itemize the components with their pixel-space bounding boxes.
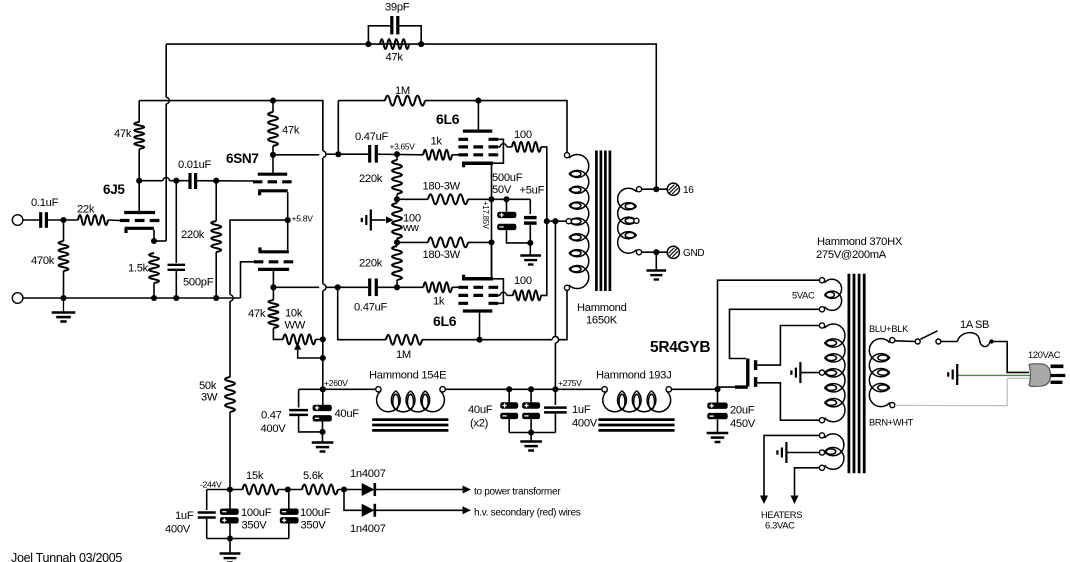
svg-text:16: 16	[683, 185, 694, 196]
svg-text:1M: 1M	[395, 85, 410, 97]
resistor 47k (6SN7 upper plate)	[272, 101, 274, 112]
node 1.5k-gnd	[151, 295, 157, 301]
wire cathode tail	[230, 220, 288, 295]
potentiometer 10k WW	[283, 334, 316, 344]
node cap bottoms	[527, 240, 533, 246]
svg-text:50k: 50k	[199, 380, 217, 392]
fuse 1A SB	[958, 333, 991, 347]
svg-text:120VAC: 120VAC	[1028, 350, 1061, 360]
node 500pF-gnd	[173, 295, 179, 301]
node filter gnd	[528, 429, 534, 435]
wire 6L6 upper cathode lead	[491, 165, 493, 200]
svg-text:220k: 220k	[181, 229, 205, 241]
transformer T2 primary center tap	[566, 219, 571, 224]
ground (cathode caps)	[529, 243, 531, 255]
svg-text:470k: 470k	[31, 255, 55, 267]
node 6J5 cathode	[151, 238, 157, 244]
resistor 1M (lower)	[338, 287, 386, 339]
svg-text:WW: WW	[285, 320, 306, 332]
svg-text:180-3W: 180-3W	[423, 249, 461, 261]
wire diode2 to arrow	[376, 509, 463, 511]
tube 6L6 upper cathode	[462, 161, 493, 165]
node 15k/5.6k	[285, 486, 291, 492]
wire 6SN7 lower grid to gnd bus	[241, 262, 254, 298]
svg-text:1.5k: 1.5k	[128, 263, 149, 275]
wire heater top lead	[764, 435, 819, 496]
node +260V	[320, 386, 326, 392]
node cathode/180 upper	[488, 196, 494, 202]
wire +260V node area	[299, 388, 376, 390]
svg-text:6.3VAC: 6.3VAC	[765, 521, 795, 531]
wire 16 ohm tap	[642, 188, 667, 190]
svg-text:to power transformer: to power transformer	[474, 487, 561, 498]
wire g3-cathode tie lower	[493, 279, 503, 304]
node B+ / 47k top	[270, 98, 276, 104]
node GND tap	[653, 249, 659, 255]
arrow to power transformer	[463, 486, 472, 494]
tube 6SN7 lower grid	[254, 260, 293, 263]
resistor 22k	[78, 215, 108, 225]
wire 193J to rectifier	[672, 388, 718, 390]
choke L2 Hammond 193J	[602, 387, 607, 392]
capacitor 39pF	[368, 26, 391, 44]
wire GND tap	[642, 251, 667, 253]
plug prongs	[1051, 364, 1064, 368]
tube 6L6 lower g2	[458, 294, 498, 297]
capacitor 100uF 350V (b)	[288, 524, 290, 539]
svg-text:100: 100	[514, 275, 532, 287]
node 1M tap upper	[335, 151, 341, 157]
wire 154E to +275V	[445, 388, 601, 390]
wire HV center tap	[801, 372, 819, 374]
node 500uF top	[503, 196, 509, 202]
resistor 50k 3W (tail)	[225, 377, 235, 412]
node -244V	[227, 486, 233, 492]
wire bias rail	[207, 489, 243, 491]
resistor 1k (upper 6L6 grid stopper)	[423, 150, 452, 160]
capacitor 500pF	[175, 181, 177, 263]
svg-text:10k: 10k	[285, 308, 303, 320]
wire 6SN7 lower plate to 0.47uF	[273, 286, 319, 288]
svg-text:47k: 47k	[114, 128, 132, 140]
svg-text:350V: 350V	[301, 520, 327, 532]
svg-text:6SN7: 6SN7	[226, 151, 259, 166]
svg-text:400V: 400V	[165, 524, 191, 536]
wire diode branch	[344, 490, 362, 511]
transformer T1 heater winding	[825, 434, 844, 456]
wire 6L6 lower cathode lead	[491, 242, 493, 277]
svg-text:5.6k: 5.6k	[303, 470, 324, 482]
svg-text:+260V: +260V	[324, 378, 348, 388]
wire switch to fuse	[941, 341, 958, 343]
svg-text:1k: 1k	[433, 296, 445, 308]
svg-text:220k: 220k	[359, 173, 383, 185]
node 16 tap	[653, 186, 659, 192]
svg-text:0.47: 0.47	[261, 410, 282, 422]
wire 100 to screen rail lower	[541, 221, 547, 295]
node 40uF x2 b	[528, 386, 534, 392]
svg-text:100uF: 100uF	[241, 507, 272, 519]
node 6SN7 lower plate	[270, 284, 276, 290]
wire g3-cathode tie upper	[493, 139, 503, 163]
svg-text:350V: 350V	[242, 520, 268, 532]
transformer T1 core	[848, 274, 851, 474]
capacitor 40uF x2 (a)	[508, 389, 510, 402]
wire 1k to g1	[452, 154, 458, 156]
node 6L6 lower plate junction	[476, 337, 482, 343]
transformer T1 HV winding	[825, 324, 845, 347]
svg-text:6L6: 6L6	[433, 313, 457, 329]
svg-text:450V: 450V	[730, 418, 756, 430]
node diode junction	[341, 486, 347, 492]
svg-text:39pF: 39pF	[385, 2, 410, 14]
wire plug ground (green)	[958, 374, 1031, 376]
wire 1M upper vertical	[337, 101, 339, 155]
wire 0.01uF to 6SN7 grid	[196, 180, 254, 182]
wire plug neutral (gray)	[895, 378, 1031, 405]
svg-text:220k: 220k	[359, 258, 383, 270]
svg-text:(x2): (x2)	[470, 418, 489, 430]
node pot wiper	[320, 355, 326, 361]
ground (input)	[63, 298, 65, 313]
wire bias to 1uF	[206, 490, 208, 511]
svg-text:+5.8V: +5.8V	[292, 214, 314, 224]
node 6SN7 upper plate	[270, 152, 276, 158]
svg-text:100: 100	[514, 129, 532, 141]
svg-text:20uF: 20uF	[730, 405, 755, 417]
input jack J1 (hot)	[12, 215, 23, 226]
tube 6L6 upper g2	[458, 145, 498, 148]
wire screen rail to CT	[547, 220, 566, 222]
node bias gnd	[227, 535, 233, 541]
resistor 100 (lower screen)	[513, 290, 541, 300]
svg-text:400V: 400V	[261, 423, 287, 435]
wire cathode bus vertical	[491, 199, 493, 276]
svg-text:1k: 1k	[431, 136, 443, 148]
wire B+ rail top	[139, 101, 323, 151]
capacitor 0.01uF	[188, 173, 191, 189]
node 220k top	[394, 151, 400, 157]
resistor 47k (feedback)	[380, 39, 409, 49]
svg-text:40uF: 40uF	[335, 408, 360, 420]
transformer T1 5VAC winding	[825, 279, 842, 298]
ground (speaker)	[655, 252, 657, 269]
wire cathode node to caps	[492, 198, 531, 200]
choke L2 core	[598, 418, 674, 421]
svg-text:0.01uF: 0.01uF	[178, 159, 211, 171]
svg-text:Joel Tunnah 03/2005: Joel Tunnah 03/2005	[11, 551, 122, 562]
svg-text:15k: 15k	[246, 470, 264, 482]
wire fuse to plug hot	[990, 342, 1029, 373]
tube 6L6 lower plate	[463, 309, 492, 312]
tube 6SN7 upper cathode	[258, 189, 287, 192]
tube 6SN7 lower cathode	[259, 250, 289, 253]
resistor 1k (lower 6L6 grid stopper)	[423, 282, 452, 292]
svg-text:1650K: 1650K	[586, 315, 618, 327]
node 220k/180 junction upper	[394, 196, 400, 202]
node +275V	[552, 386, 558, 392]
svg-text:0.47uF: 0.47uF	[355, 131, 388, 143]
transformer T2 core	[595, 151, 598, 292]
svg-text:275V@200mA: 275V@200mA	[816, 249, 887, 261]
svg-text:400V: 400V	[572, 418, 598, 430]
node pot right	[320, 336, 326, 342]
svg-text:3W: 3W	[201, 392, 218, 404]
ground (first filter)	[322, 432, 324, 442]
wire plate to coupling cap	[139, 180, 163, 182]
wire 0.1uF to node A	[46, 219, 78, 221]
choke L1 Hammond 154E	[376, 387, 381, 392]
tube 6L6 lower g3	[458, 302, 498, 305]
svg-text:+17.85V: +17.85V	[481, 201, 490, 230]
wire feedback top run	[166, 44, 656, 189]
capacitor 20uF 450V	[717, 389, 719, 402]
wire diode1 to arrow	[376, 489, 463, 491]
transformer T2 secondary winding	[618, 188, 637, 210]
svg-text:22k: 22k	[77, 204, 95, 216]
diode 1n4007 (top)	[362, 483, 375, 496]
svg-text:47k: 47k	[282, 125, 300, 137]
capacitor 1uF 400V (B+)	[554, 389, 556, 405]
capacitor 0.47uF (lower)	[368, 279, 371, 297]
svg-text:6J5: 6J5	[103, 182, 125, 197]
ground (bias)	[229, 539, 231, 553]
wire grid line lower	[376, 286, 423, 288]
wire heater bottom lead	[795, 468, 820, 496]
svg-text:Hammond 370HX: Hammond 370HX	[817, 236, 903, 248]
node 40uF bottom	[319, 429, 325, 435]
capacitor 0.47 400V	[298, 389, 300, 407]
svg-text:1n4007: 1n4007	[350, 468, 386, 480]
ground (20uF)	[707, 432, 729, 435]
svg-text:BRN+WHT: BRN+WHT	[869, 418, 914, 428]
wire bias gnd rail	[207, 538, 289, 540]
wire B+ feed down	[554, 221, 556, 336]
resistor 15k	[243, 485, 279, 495]
svg-text:Hammond 193J: Hammond 193J	[596, 370, 671, 382]
wiper 100WW to chassis gnd	[370, 210, 372, 231]
wire primary to switch	[895, 340, 915, 343]
resistor 47k (6SN7 lower plate load)	[272, 287, 274, 300]
transformer T2 secondary terminal top	[636, 187, 641, 192]
arrow to hv secondary	[463, 506, 472, 514]
resistor 1.5k	[149, 253, 159, 283]
capacitor 500uF 50V	[506, 199, 508, 211]
resistor 180-3W (upper)	[397, 198, 428, 200]
svg-text:100uF: 100uF	[300, 507, 331, 519]
tube 6SN7 lower plate	[258, 268, 289, 271]
svg-text:500uF: 500uF	[492, 172, 523, 184]
node 0.01uF right / 220k	[213, 178, 219, 184]
wire B+ to 5VAC top	[718, 280, 820, 389]
transformer T1 primary winding	[869, 339, 889, 362]
wire ground bus	[23, 297, 241, 299]
resistor 220k (6SN7 grid)	[215, 181, 217, 221]
ground (filter caps)	[530, 433, 532, 441]
node feedback left of 47k	[365, 41, 371, 47]
svg-text:1A SB: 1A SB	[960, 319, 989, 331]
resistor 47k (6J5 plate load)	[138, 101, 140, 122]
node 40uF x2 a	[506, 386, 512, 392]
node 470k-gnd	[60, 295, 66, 301]
transformer T2 secondary terminal bottom	[636, 250, 641, 255]
svg-text:40uF: 40uF	[468, 404, 493, 416]
ground (mains chassis)	[956, 364, 958, 385]
svg-text:GND: GND	[683, 248, 704, 259]
svg-text:180-3W: 180-3W	[423, 181, 461, 193]
transformer T2 primary terminal top	[564, 153, 569, 158]
plug 120VAC body	[1029, 364, 1050, 387]
input jack J2 (return)	[12, 293, 23, 304]
tube 6J5 grid	[120, 219, 160, 222]
node screen rail	[544, 218, 550, 224]
node cathode/180 lower	[488, 239, 494, 245]
node 1M tap lower	[335, 284, 341, 290]
svg-text:1M: 1M	[396, 349, 411, 361]
node 0.01uF left	[173, 178, 179, 184]
capacitor 1uF 400V (bias)	[198, 511, 216, 514]
node 220k-gnd	[213, 295, 219, 301]
transformer T2 primary terminal bottom	[564, 285, 569, 290]
wire 22k to 6J5 grid	[108, 219, 120, 222]
wire 6SN7 upper plate to 0.47uF	[273, 154, 319, 156]
node feedback right of 47k	[418, 41, 424, 47]
svg-text:Hammond 154E: Hammond 154E	[369, 370, 446, 382]
svg-text:6L6: 6L6	[436, 111, 460, 127]
tube 6SN7 upper plate	[272, 155, 274, 173]
resistor 1M (upper)	[338, 100, 385, 102]
wire feedback vertical left	[165, 44, 167, 97]
wire plate lower to HV bottom	[757, 383, 819, 420]
capacitor 40uF (first filter)	[322, 389, 324, 404]
svg-text:h.v. secondary (red) wires: h.v. secondary (red) wires	[474, 508, 581, 519]
node A (grid input)	[60, 217, 66, 223]
svg-text:47k: 47k	[386, 52, 404, 64]
diode 1n4007 (bottom)	[362, 504, 375, 517]
svg-text:5VAC: 5VAC	[792, 291, 815, 301]
wire B+ vertical	[322, 101, 324, 151]
transformer T2 primary winding	[569, 154, 589, 177]
node 6L6 upper plate	[475, 98, 481, 104]
node B+ takeoff	[552, 218, 558, 224]
svg-text:47k: 47k	[248, 308, 266, 320]
wire cap to grid line upper	[338, 153, 368, 155]
svg-text:1n4007: 1n4007	[350, 523, 386, 535]
ground (HV CT chassis)	[799, 362, 801, 383]
tube 6L6 upper g1	[458, 153, 498, 156]
wire g2 to 100 lower	[498, 294, 500, 296]
wire plate upper to HV top	[757, 326, 819, 366]
resistor 5.6k	[302, 485, 338, 495]
svg-text:1uF: 1uF	[175, 510, 194, 522]
potentiometer 100 WW (hum balance)	[392, 203, 402, 239]
ground (heater CT chassis)	[785, 442, 787, 463]
capacitor 100uF 350V (a)	[229, 490, 231, 509]
transformer T2 secondary terminal mid	[634, 218, 639, 223]
svg-text:50V: 50V	[492, 184, 512, 196]
tube 6L6 lower g1	[458, 286, 498, 289]
switch S1	[915, 339, 920, 344]
wire grid line upper	[376, 153, 423, 156]
terminal screw 16	[667, 183, 679, 195]
resistor 220k (lower)	[396, 242, 398, 246]
svg-text:1uF: 1uF	[572, 404, 591, 416]
tube 5R4GYB cathode/filament bar	[746, 359, 749, 387]
terminal screw GND	[667, 246, 679, 258]
tube 6L6 upper g3	[458, 138, 498, 141]
wire filament bottom to B+ node	[718, 387, 736, 389]
capacitor 0.1uF	[39, 212, 42, 228]
wire 5.6k to diodes	[338, 489, 362, 491]
wire filament top to 5VAC	[730, 309, 820, 358]
resistor 220k (upper)	[396, 154, 398, 160]
svg-text:5R4GYB: 5R4GYB	[650, 339, 710, 356]
svg-text:+5uF: +5uF	[520, 185, 545, 197]
wire g2 to 100 upper	[498, 146, 500, 148]
tube 6SN7 upper grid	[253, 180, 292, 183]
node rectifier output	[714, 386, 720, 392]
arrow heater b	[791, 496, 799, 505]
node 6J5 plate / 47k	[136, 178, 142, 184]
capacitor 40uF x2 (b)	[530, 389, 532, 402]
svg-text:BLU+BLK: BLU+BLK	[869, 324, 909, 334]
svg-text:-244V: -244V	[200, 480, 222, 490]
svg-text:+275V: +275V	[558, 378, 582, 388]
resistor 100 (upper screen)	[512, 142, 541, 152]
resistor 470k	[63, 220, 65, 241]
capacitor +5uF	[529, 199, 531, 214]
svg-text:ww: ww	[402, 222, 420, 234]
wire 100 to screen rail upper	[541, 147, 547, 221]
node 220k/180 junction lower	[394, 239, 400, 245]
tube 6L6 lower cathode	[462, 277, 493, 281]
svg-text:+3.65V: +3.65V	[390, 142, 416, 152]
tube 6L6 upper plate	[477, 101, 479, 130]
wire heater center tap	[787, 452, 819, 454]
svg-text:500pF: 500pF	[183, 277, 214, 289]
tube 6J5 plate	[124, 211, 155, 214]
choke L1 core	[372, 418, 448, 421]
node fuse out	[989, 339, 993, 343]
arrow heater a	[760, 496, 768, 505]
svg-text:HEATERS: HEATERS	[761, 510, 802, 520]
node 220k bottom	[394, 284, 400, 290]
capacitor 0.47uF (upper)	[368, 145, 371, 163]
tube 6J5 cathode	[125, 227, 154, 230]
svg-text:0.47uF: 0.47uF	[354, 302, 387, 314]
svg-text:0.1uF: 0.1uF	[31, 197, 59, 209]
resistor 180-3W (lower)	[397, 241, 428, 243]
tube 5R4GYB plates	[754, 360, 757, 370]
svg-text:Hammond: Hammond	[577, 302, 627, 314]
node +5.8V cathode	[285, 217, 291, 223]
wire filter cap bottoms	[509, 432, 555, 434]
wire 15k to 5.6k	[278, 489, 302, 491]
